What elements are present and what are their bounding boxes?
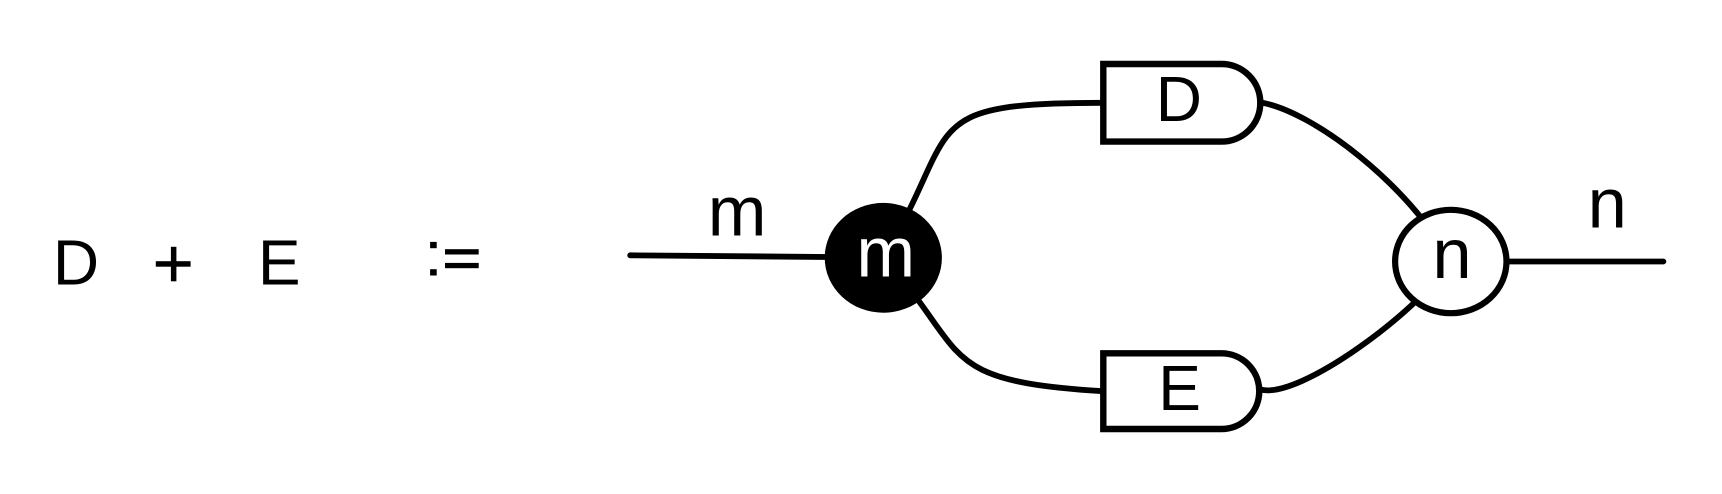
wire: m to box D: [883, 103, 1103, 258]
svg-text:E: E: [258, 227, 301, 299]
node n (white comonoid dot): [1395, 210, 1506, 313]
node m (black monoid dot): [825, 203, 942, 313]
formula := colon upper dot: [430, 242, 437, 248]
svg-text:D: D: [53, 227, 99, 299]
svg-text:m: m: [856, 212, 915, 291]
svg-text:E: E: [1158, 352, 1201, 424]
formula := equals lower bar: [445, 263, 479, 268]
svg-text:n: n: [1432, 214, 1471, 293]
wire: box D to n: [1260, 102, 1451, 261]
wire: left input m: [630, 255, 883, 257]
wire: box E to n: [1260, 262, 1451, 391]
box E: [1103, 353, 1259, 429]
wire: right output n: [1505, 259, 1663, 265]
svg-text:n: n: [1588, 164, 1627, 243]
formula := colon lower dot: [430, 269, 437, 275]
wire: m to box E: [883, 258, 1103, 392]
box D: [1103, 64, 1260, 142]
formula operator + vertical bar: [171, 247, 177, 281]
formula := equals upper bar: [445, 249, 479, 254]
svg-text:m: m: [708, 172, 767, 251]
svg-text:D: D: [1156, 63, 1202, 135]
formula operator + horizontal bar: [156, 261, 191, 267]
